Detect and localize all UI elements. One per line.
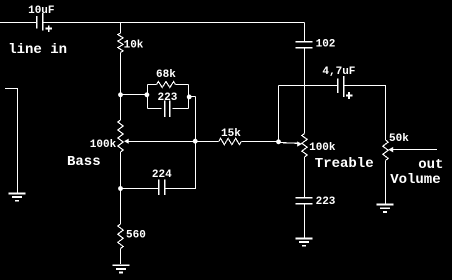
ground treble: [295, 238, 312, 245]
potentiometer P1 100k Bass body: [118, 120, 123, 152]
capacitor C4 102: [296, 42, 313, 48]
svg-text:out: out: [418, 157, 443, 173]
svg-text:223: 223: [316, 196, 336, 208]
wire node D up to C5 rail: [278, 86, 280, 142]
resistor R4 560: [118, 224, 123, 249]
node D junction: [276, 139, 281, 144]
wire right bracket to riser: [189, 96, 195, 98]
C1 polarity plus: [45, 25, 52, 32]
resistor R1 10k: [118, 33, 123, 53]
wire left bracket of parallel group: [147, 85, 149, 109]
wire C4 to treble pot: [304, 48, 306, 134]
svg-text:10k: 10k: [124, 40, 144, 52]
junction parallel group left: [145, 92, 150, 97]
svg-text:4,7uF: 4,7uF: [322, 66, 355, 78]
svg-text:line in: line in: [8, 42, 67, 58]
svg-text:224: 224: [152, 169, 172, 181]
node A junction: [118, 92, 123, 97]
wire volume pot to ground: [385, 161, 387, 204]
wire C5 to volume pot: [344, 86, 386, 141]
svg-text:68k: 68k: [156, 69, 176, 81]
resistor R2 68k: [148, 82, 189, 88]
C5 polarity plus: [346, 92, 353, 99]
wire R3 to node D: [241, 141, 278, 143]
node E junction: [118, 186, 123, 191]
wire bass pot to node E: [120, 152, 122, 188]
svg-text:Treable: Treable: [315, 156, 374, 172]
wire C6 to ground: [304, 204, 306, 237]
svg-text:15k: 15k: [221, 128, 241, 140]
svg-text:100k: 100k: [309, 142, 336, 154]
potentiometer P3 50k Volume body: [383, 140, 388, 161]
svg-text:50k: 50k: [389, 133, 409, 145]
wire riser through node C down to 224 rail: [195, 97, 197, 189]
wire treble pot to C6: [304, 157, 306, 197]
potentiometer P2 100k Treable body: [302, 134, 307, 158]
wire node D rail to C5: [279, 85, 338, 87]
node C junction: [193, 139, 198, 144]
wire top rail to R1: [120, 22, 122, 33]
wire input ground stub: [5, 89, 18, 193]
svg-text:102: 102: [316, 39, 336, 51]
ground input: [8, 193, 25, 200]
wire volume wiper to out terminal: [393, 149, 437, 151]
volume wiper arrow: [388, 147, 393, 153]
wire 224 to riser corner: [165, 186, 195, 189]
wire C1 to treble column (top rail): [43, 22, 304, 24]
capacitor C1 10uF: [37, 13, 43, 30]
svg-text:223: 223: [158, 92, 178, 104]
capacitor C6 223: [296, 198, 313, 204]
svg-text:10uF: 10uF: [28, 5, 54, 17]
bass wiper arrow: [124, 139, 129, 144]
capacitor C3 224: [121, 179, 165, 195]
svg-text:Volume: Volume: [390, 172, 440, 188]
svg-text:100k: 100k: [90, 139, 117, 151]
wire top rail corner down to C4: [304, 23, 306, 42]
wire R1 to bass pot through node A: [120, 53, 122, 121]
capacitor C5 4,7uF: [338, 76, 344, 97]
treble wiper arrow: [297, 141, 302, 146]
ground R4: [112, 265, 129, 272]
wire R4 to ground: [120, 249, 122, 265]
capacitor C2 223: [148, 100, 189, 117]
junction parallel group right: [187, 95, 192, 100]
wire node E to R4: [120, 188, 122, 224]
wire input to C1: [0, 22, 36, 24]
ground volume: [376, 205, 393, 212]
svg-text:560: 560: [126, 230, 146, 242]
wire node D to treble wiper arrow: [279, 142, 298, 145]
wire node A to parallel group: [121, 94, 148, 96]
wire bass wiper to R3: [128, 141, 219, 143]
resistor R3 15k: [219, 138, 242, 144]
svg-text:Bass: Bass: [67, 154, 101, 170]
wire right bracket of parallel group: [188, 85, 190, 109]
